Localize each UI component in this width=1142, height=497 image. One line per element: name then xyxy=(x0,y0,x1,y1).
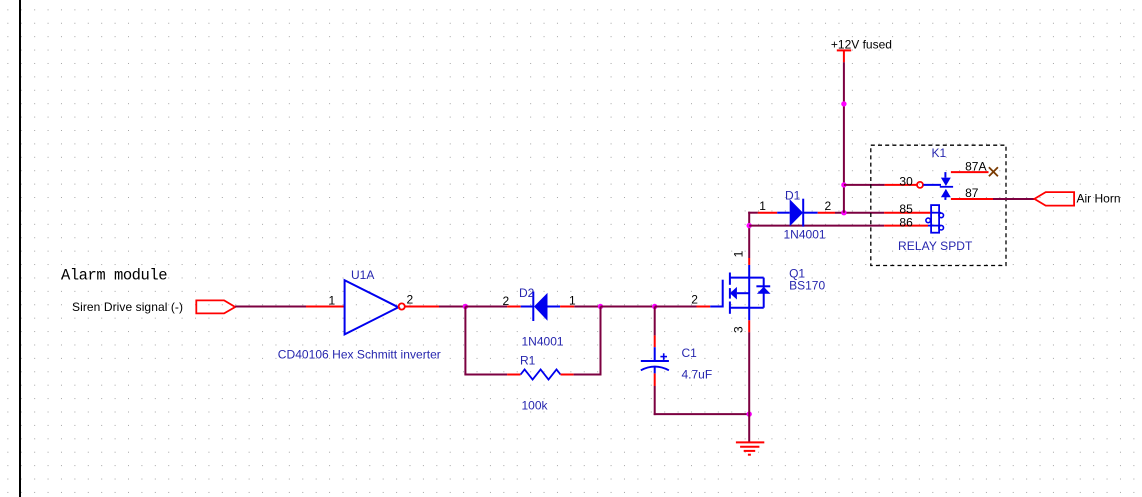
pin 3 (source) of Q1 xyxy=(748,320,750,332)
wire 30 tap to relay pin 30 xyxy=(844,184,885,186)
resistor R1 xyxy=(521,370,561,380)
wire node C down to C1 xyxy=(654,307,656,336)
svg-text:1N4001: 1N4001 xyxy=(522,335,564,349)
ground symbol xyxy=(736,442,764,454)
junction node C xyxy=(652,304,657,309)
pin 87A of K1 xyxy=(951,171,989,173)
inverter bubble xyxy=(399,303,405,309)
wire left leg to R1 xyxy=(464,374,507,376)
svg-text:BS170: BS170 xyxy=(789,278,825,292)
power bar xyxy=(837,49,851,51)
diode D2 body xyxy=(521,292,560,322)
relay K1 dashed box xyxy=(871,145,1006,265)
svg-text:1: 1 xyxy=(759,199,766,213)
svg-text:1: 1 xyxy=(731,250,745,257)
wire U1A output to node A xyxy=(439,306,465,308)
svg-text:1: 1 xyxy=(329,293,336,307)
wire C1 down xyxy=(654,386,656,415)
svg-text:Air Horn: Air Horn xyxy=(1077,192,1121,206)
svg-text:D2: D2 xyxy=(519,286,535,300)
pin 1 (drain) of Q1 xyxy=(748,258,750,265)
relay NC contact arrow xyxy=(941,178,951,186)
relay coil xyxy=(926,205,944,233)
relay NC riser xyxy=(944,172,946,178)
wire Q1 source to ground node xyxy=(748,332,750,414)
junction on +12V rail xyxy=(841,101,846,106)
svg-text:30: 30 xyxy=(899,175,913,189)
wire D1 pin2 to +12V node xyxy=(835,212,884,214)
junction node B xyxy=(598,304,603,309)
pin 1 of R1 xyxy=(507,374,520,376)
junction ground node xyxy=(747,411,752,416)
svg-text:1: 1 xyxy=(569,293,576,307)
connector port Siren Drive signal xyxy=(196,300,235,313)
junction node A xyxy=(463,304,468,309)
pin 86 of K1 xyxy=(884,225,928,227)
svg-text:2: 2 xyxy=(825,199,832,213)
svg-text:1N4001: 1N4001 xyxy=(784,228,826,242)
svg-text:Alarm module: Alarm module xyxy=(61,267,168,285)
svg-text:K1: K1 xyxy=(932,146,947,160)
wire Q1 drain up to D1 corner xyxy=(748,212,750,258)
svg-text:RELAY SPDT: RELAY SPDT xyxy=(898,239,973,253)
diode D1 body xyxy=(777,199,818,227)
wire node B to node C xyxy=(601,306,655,308)
relay NO riser xyxy=(944,197,946,200)
wire ground stub xyxy=(748,414,750,442)
transistor Q1 MOSFET body xyxy=(710,265,770,320)
svg-text:85: 85 xyxy=(899,202,913,216)
wire node A down to R1 xyxy=(464,307,466,375)
relay armature line xyxy=(923,184,941,186)
wire C1 bottom to ground node xyxy=(654,413,750,415)
svg-text:100k: 100k xyxy=(522,398,549,412)
svg-text:87: 87 xyxy=(965,186,979,200)
svg-text:U1A: U1A xyxy=(351,268,374,282)
svg-text:3: 3 xyxy=(731,326,745,333)
wire right leg up to node B xyxy=(600,307,602,376)
pin 30 of K1 xyxy=(885,184,917,186)
pin 2 of D2 xyxy=(507,306,521,308)
svg-text:2: 2 xyxy=(407,293,414,307)
svg-text:87A: 87A xyxy=(965,160,986,174)
svg-text:R1: R1 xyxy=(520,353,536,367)
pin 1 of C1 xyxy=(654,335,656,347)
junction node 86 tap xyxy=(747,223,752,228)
pin 1 of U1A xyxy=(306,306,345,308)
wire D2 pin1 to node B xyxy=(574,306,600,308)
wire +12V rail down xyxy=(843,62,845,212)
junction 30 tap xyxy=(841,182,846,187)
wire corner to D1 pin1 xyxy=(748,212,758,214)
wire connector to U1A pin1 xyxy=(235,306,306,308)
pin 2 of D1 xyxy=(818,212,835,214)
svg-text:Siren Drive signal (-): Siren Drive signal (-) xyxy=(72,300,183,314)
pin 2 (gate) of Q1 xyxy=(697,306,711,308)
pin 2 of C1 xyxy=(654,373,656,386)
pin 1 of D2 xyxy=(560,306,574,308)
relay common contact circle xyxy=(917,182,923,188)
junction +12V / D1 node xyxy=(841,210,846,215)
op-amp U1A inverter triangle xyxy=(345,280,399,334)
svg-text:4.7uF: 4.7uF xyxy=(682,368,713,382)
svg-text:2: 2 xyxy=(503,294,510,308)
svg-text:D1: D1 xyxy=(785,189,801,203)
sheet border line xyxy=(19,0,21,497)
svg-text:86: 86 xyxy=(899,215,913,229)
pin 2 of R1 xyxy=(561,374,574,376)
relay NO contact arrow xyxy=(941,189,951,197)
wire R1 to right leg xyxy=(574,374,602,376)
svg-text:2: 2 xyxy=(691,293,698,307)
wire node A to D2 pin2 xyxy=(465,306,507,308)
no-connect X on 87A xyxy=(989,167,998,176)
svg-text:C1: C1 xyxy=(682,346,698,360)
pin 87 of K1 xyxy=(951,198,993,200)
svg-text:CD40106 Hex Schmitt inverter: CD40106 Hex Schmitt inverter xyxy=(278,348,441,362)
wire 86 tap to relay pin 86 xyxy=(749,225,884,227)
pin 1 of D1 xyxy=(758,212,777,214)
connector port Air Horn xyxy=(1034,192,1074,206)
capacitor C1 xyxy=(641,347,669,373)
pin 2 of U1A xyxy=(405,306,439,308)
relay contact bar xyxy=(940,186,953,188)
wire 87 to Air Horn xyxy=(993,198,1034,200)
power pin stub xyxy=(843,50,845,62)
wire node C to Q1 gate xyxy=(655,306,697,308)
pin 85 of K1 xyxy=(884,212,931,214)
